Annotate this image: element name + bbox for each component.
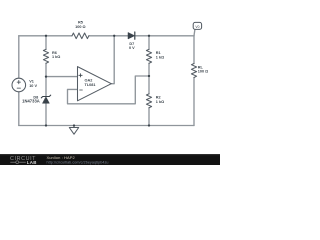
svg-text:1 kΩ: 1 kΩ [156,100,164,104]
wire left rail upper [18,36,20,78]
junction top of R6 [45,35,47,37]
junction ground tap [73,124,75,126]
junction top of R1 [148,35,150,37]
resistor R6 [43,49,48,63]
svg-text:TL081: TL081 [85,83,96,87]
wire top rail mid segment [89,35,128,37]
node V0 flag [193,22,201,29]
wire bottom rail [19,125,194,127]
svg-text:1 kΩ: 1 kΩ [156,55,164,59]
junction zener bottom [45,124,47,126]
svg-text:10 V: 10 V [29,84,37,88]
wire R1-R2 mid column [148,63,150,94]
wire left rail lower [18,92,20,126]
op-amp OA2 [78,67,112,101]
wire R6 column upper [45,36,47,50]
svg-text:0 V: 0 V [129,46,135,50]
svg-text:Xunlion : HAP2: Xunlion : HAP2 [47,155,76,160]
wire opamp noninverting input [46,76,78,78]
resistor RL [191,64,196,78]
op-amp minus input marker [80,89,83,91]
junction divider tap [148,75,150,77]
svg-text:V0: V0 [195,25,199,29]
svg-text:100 Ω: 100 Ω [75,25,85,29]
wire right rail upper (to RL) [193,36,195,64]
op-amp plus input marker [79,74,82,77]
ground [69,128,78,135]
footer watermark bar [0,154,220,165]
svg-text:http://circuitlab.com/c/2beyaq: http://circuitlab.com/c/2beyaq6pb4zu [47,160,109,164]
wire V0 flag lead [193,29,196,35]
svg-text:1N4733A: 1N4733A [22,99,40,104]
junction R2 bottom [148,124,150,126]
resistor R2 [146,94,151,108]
wire ground stem [73,126,75,128]
wire feedback from divider tap [68,76,150,104]
wire zener column lower [45,103,47,125]
junction noninverting tap [45,75,47,77]
svg-text:1 kΩ: 1 kΩ [52,55,60,59]
wire R2 lower lead [148,108,150,126]
wire zener column upper [45,77,47,96]
wire opamp output to top rail [111,36,114,84]
resistor R5 [72,33,89,39]
zener diode D8 [41,95,50,103]
wire right rail lower (from RL) [193,78,195,126]
diode D7 [128,32,135,39]
wire top rail right segment [136,35,194,37]
svg-text:100 Ω: 100 Ω [198,70,208,74]
wire R6 column lower [45,63,47,76]
resistor R1 [146,49,151,63]
wire R1 upper lead [148,36,150,50]
junction opamp output at top rail [113,35,115,37]
svg-text:LAB: LAB [27,160,37,165]
voltage source V1 [12,78,26,92]
wire top rail left segment [19,35,72,37]
